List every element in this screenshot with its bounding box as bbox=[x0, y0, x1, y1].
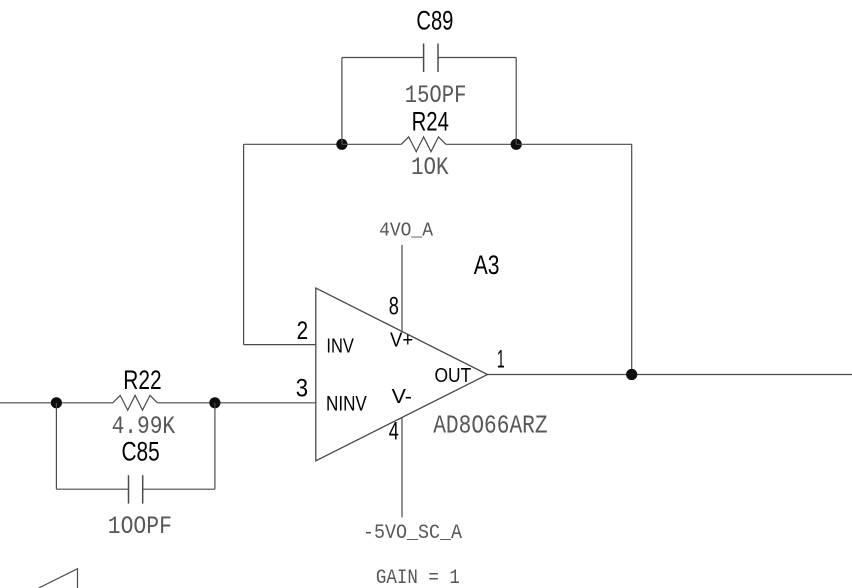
svg-text:8: 8 bbox=[389, 293, 399, 321]
svg-text:1OOPF: 1OOPF bbox=[108, 512, 172, 541]
wire pin 2 horizontal to op-amp bbox=[244, 344, 316, 346]
wire C85 right branch vertical bbox=[214, 403, 216, 489]
svg-text:AD8O66ARZ: AD8O66ARZ bbox=[433, 410, 547, 440]
svg-text:R22: R22 bbox=[123, 365, 161, 395]
junction dot right of R22 bbox=[209, 397, 220, 408]
svg-text:GAIN = 1: GAIN = 1 bbox=[376, 567, 460, 588]
svg-text:INV: INV bbox=[326, 335, 354, 358]
resistor R24 bbox=[401, 137, 446, 152]
wire pin 8 (V+) vertical bbox=[401, 245, 403, 332]
wire feedback top to R24 left node bbox=[244, 143, 342, 145]
svg-text:-5VO_SC_A: -5VO_SC_A bbox=[363, 522, 463, 545]
wire C89 right branch vertical bbox=[515, 58, 517, 145]
svg-text:NINV: NINV bbox=[326, 392, 367, 415]
wire input net (pin 3 net) left segment bbox=[0, 402, 113, 404]
svg-text:V+: V+ bbox=[390, 330, 413, 352]
wire feedback top right horizontal bbox=[516, 143, 632, 145]
svg-text:4: 4 bbox=[389, 417, 399, 445]
wire C89 top left horizontal bbox=[342, 57, 424, 59]
resistor R22 bbox=[113, 395, 158, 410]
junction dot R24 left bbox=[336, 139, 347, 150]
wire R24 left lead bbox=[342, 143, 401, 145]
wire C85 left branch vertical bbox=[55, 403, 57, 489]
wire C85 bottom right horizontal bbox=[143, 488, 215, 490]
svg-text:C85: C85 bbox=[122, 436, 160, 466]
wire C89 left branch vertical bbox=[341, 58, 343, 145]
junction dot output feedback bbox=[626, 369, 637, 380]
wire C89 top right horizontal bbox=[438, 57, 516, 59]
svg-text:V-: V- bbox=[392, 386, 412, 408]
capacitor C89 bbox=[424, 44, 438, 73]
svg-text:4VO_A: 4VO_A bbox=[379, 219, 433, 241]
svg-text:1OK: 1OK bbox=[411, 153, 449, 182]
junction dot left of R22 bbox=[51, 397, 62, 408]
svg-text:R24: R24 bbox=[412, 106, 449, 136]
wire pin 4 (V-) vertical bbox=[401, 418, 403, 518]
wire R24 right lead bbox=[446, 143, 516, 145]
capacitor C85 bbox=[129, 475, 143, 503]
svg-text:2: 2 bbox=[297, 317, 309, 345]
wire output net (pin 1) bbox=[488, 374, 852, 376]
wire feedback left vertical bbox=[243, 144, 245, 344]
partial triangle bottom-left bbox=[39, 569, 78, 588]
wire feedback right vertical to output bbox=[631, 144, 633, 374]
svg-text:OUT: OUT bbox=[435, 365, 472, 387]
wire C85 bottom left horizontal bbox=[56, 488, 128, 490]
svg-text:A3: A3 bbox=[474, 250, 500, 280]
junction dot R24 right bbox=[511, 139, 522, 150]
svg-text:1: 1 bbox=[497, 345, 505, 373]
svg-text:3: 3 bbox=[296, 375, 308, 403]
op-amp U A3 triangle bbox=[316, 288, 488, 461]
svg-text:C89: C89 bbox=[416, 5, 453, 35]
wire pin 3 net right segment to op-amp bbox=[157, 402, 315, 404]
